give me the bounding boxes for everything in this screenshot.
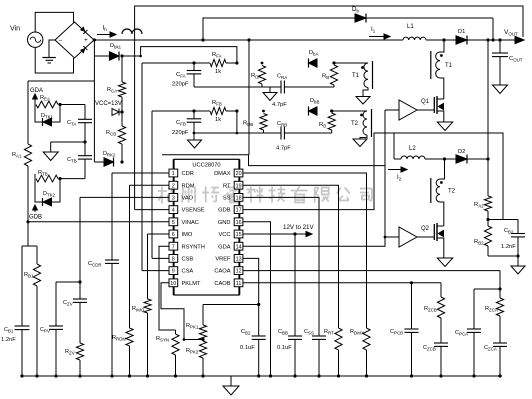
svg-text:CSS: CSS [304, 329, 314, 336]
svg-text:20: 20 [236, 171, 242, 177]
svg-text:RSYNTH: RSYNTH [182, 244, 205, 250]
svg-text:RB: RB [322, 74, 329, 81]
svg-text:IMO: IMO [182, 232, 193, 238]
svg-text:L2: L2 [409, 146, 416, 152]
svg-text:9: 9 [172, 269, 175, 275]
svg-text:GDA: GDA [218, 244, 231, 250]
svg-text:VAO: VAO [182, 196, 194, 202]
svg-text:GND: GND [218, 220, 231, 226]
svg-text:T2: T2 [448, 189, 456, 195]
svg-text:RDMX: RDMX [350, 329, 364, 336]
svg-text:RA2: RA2 [474, 202, 484, 209]
svg-text:CAOA: CAOA [214, 269, 230, 275]
svg-text:CPCB: CPCB [390, 329, 403, 336]
svg-text:15: 15 [236, 232, 242, 238]
svg-text:RDM: RDM [182, 183, 195, 189]
svg-text:T2: T2 [351, 121, 359, 127]
svg-text:5: 5 [172, 220, 175, 226]
svg-text:RCB: RCB [106, 130, 116, 137]
svg-text:RT: RT [223, 183, 231, 189]
svg-text:RB1: RB1 [24, 272, 34, 279]
svg-text:CTA: CTA [67, 120, 76, 127]
svg-text:CSB: CSB [182, 257, 194, 263]
svg-text:VSENSE: VSENSE [182, 208, 205, 214]
svg-text:1.2nF: 1.2nF [1, 337, 16, 343]
svg-text:RZCB: RZCB [424, 306, 437, 313]
svg-text:RRT: RRT [324, 329, 334, 336]
svg-text:4: 4 [172, 208, 175, 214]
svg-text:16: 16 [236, 220, 242, 226]
svg-text:14: 14 [236, 244, 242, 250]
svg-text:DTK2: DTK2 [43, 191, 56, 198]
svg-text:PKLMT: PKLMT [182, 281, 201, 287]
svg-text:−: − [59, 38, 63, 44]
svg-text:DRK2: DRK2 [103, 151, 116, 158]
svg-text:0.1uF: 0.1uF [277, 345, 292, 351]
svg-text:1k: 1k [215, 117, 221, 123]
svg-text:RRDM: RRDM [112, 335, 126, 342]
svg-text:3: 3 [172, 196, 175, 202]
svg-text:DTK1: DTK1 [41, 113, 54, 120]
svg-text:Dbk1: Dbk1 [110, 43, 122, 50]
svg-text:220pF: 220pF [172, 130, 189, 136]
svg-text:CDR: CDR [182, 171, 194, 177]
svg-text:VINAC: VINAC [182, 220, 199, 226]
svg-text:4.7pF: 4.7pF [276, 146, 291, 152]
svg-text:VCC=13V: VCC=13V [95, 101, 122, 107]
svg-text:10: 10 [170, 281, 176, 287]
svg-text:17: 17 [236, 208, 242, 214]
svg-text:RDB: RDB [243, 121, 253, 128]
svg-text:RFB: RFB [212, 100, 222, 107]
svg-text:12V to 21V: 12V to 21V [283, 224, 314, 231]
svg-text:11: 11 [236, 281, 242, 287]
svg-text:Q2: Q2 [421, 226, 430, 232]
svg-text:D2: D2 [458, 149, 465, 155]
svg-text:RTB: RTB [38, 170, 48, 177]
svg-text:T1: T1 [352, 73, 360, 79]
svg-text:RDA: RDA [251, 73, 261, 80]
svg-text:GDB: GDB [29, 215, 42, 221]
svg-text:12: 12 [236, 269, 242, 275]
svg-text:RA1: RA1 [12, 152, 22, 159]
svg-text:CRA: CRA [277, 74, 287, 81]
svg-text:VREF: VREF [215, 257, 231, 263]
svg-text:D1: D1 [458, 29, 465, 35]
svg-text:RIMO: RIMO [132, 306, 145, 313]
svg-text:GDB: GDB [218, 208, 231, 214]
svg-text:8: 8 [172, 257, 175, 263]
svg-text:RB2: RB2 [474, 239, 484, 246]
svg-text:RCA: RCA [107, 87, 117, 94]
svg-text:19: 19 [236, 183, 242, 189]
svg-text:RPK2: RPK2 [186, 348, 199, 355]
svg-text:DMAX: DMAX [214, 171, 231, 177]
svg-text:DbB: DbB [310, 98, 319, 105]
svg-text:GDA: GDA [30, 88, 43, 94]
svg-text:CCDR: CCDR [88, 261, 102, 268]
svg-text:CAOB: CAOB [214, 281, 230, 287]
svg-text:CZCB: CZCB [423, 345, 436, 352]
svg-text:Vin: Vin [10, 26, 20, 33]
svg-text:CRB: CRB [277, 121, 287, 128]
svg-text:REA: REA [40, 95, 50, 102]
svg-text:CZCA: CZCA [484, 345, 497, 352]
svg-text:CPCA: CPCA [455, 330, 468, 337]
svg-text:CB2: CB2 [504, 228, 514, 235]
svg-text:L1: L1 [407, 24, 414, 30]
svg-text:Q1: Q1 [421, 99, 430, 105]
svg-text:CFB: CFB [176, 120, 186, 127]
svg-text:4.7pF: 4.7pF [272, 102, 287, 108]
svg-text:CB2: CB2 [241, 329, 251, 336]
svg-text:VCC: VCC [218, 232, 230, 238]
svg-text:CTB: CTB [67, 157, 77, 164]
svg-text:RPK1: RPK1 [186, 323, 199, 330]
svg-text:SS: SS [223, 196, 231, 202]
svg-text:2: 2 [172, 183, 175, 189]
svg-text:220pF: 220pF [172, 82, 189, 88]
svg-text:+: + [84, 37, 88, 44]
svg-text:CBB: CBB [278, 329, 288, 336]
svg-text:6: 6 [172, 232, 175, 238]
svg-text:CPV: CPV [40, 327, 50, 334]
svg-text:CZV: CZV [63, 300, 73, 307]
svg-text:COUT: COUT [509, 56, 523, 63]
svg-text:1k: 1k [215, 69, 221, 75]
svg-text:CSA: CSA [182, 269, 194, 275]
svg-text:CFA: CFA [176, 72, 186, 79]
svg-text:13: 13 [236, 257, 242, 263]
svg-text:RFA: RFA [212, 52, 222, 59]
svg-text:18: 18 [236, 196, 242, 202]
svg-text:1: 1 [172, 171, 175, 177]
svg-text:CB1: CB1 [4, 327, 14, 334]
svg-text:RZV: RZV [65, 349, 75, 356]
svg-text:7: 7 [172, 244, 175, 250]
svg-text:DbA: DbA [309, 50, 318, 57]
svg-text:UCC28070: UCC28070 [192, 162, 220, 168]
svg-text:1.2nF: 1.2nF [501, 244, 516, 250]
svg-text:RSYN: RSYN [156, 336, 169, 343]
svg-text:RB: RB [319, 122, 326, 129]
svg-text:0.1uF: 0.1uF [240, 345, 255, 351]
svg-text:T1: T1 [445, 63, 453, 69]
svg-text:RZCA: RZCA [485, 306, 498, 313]
